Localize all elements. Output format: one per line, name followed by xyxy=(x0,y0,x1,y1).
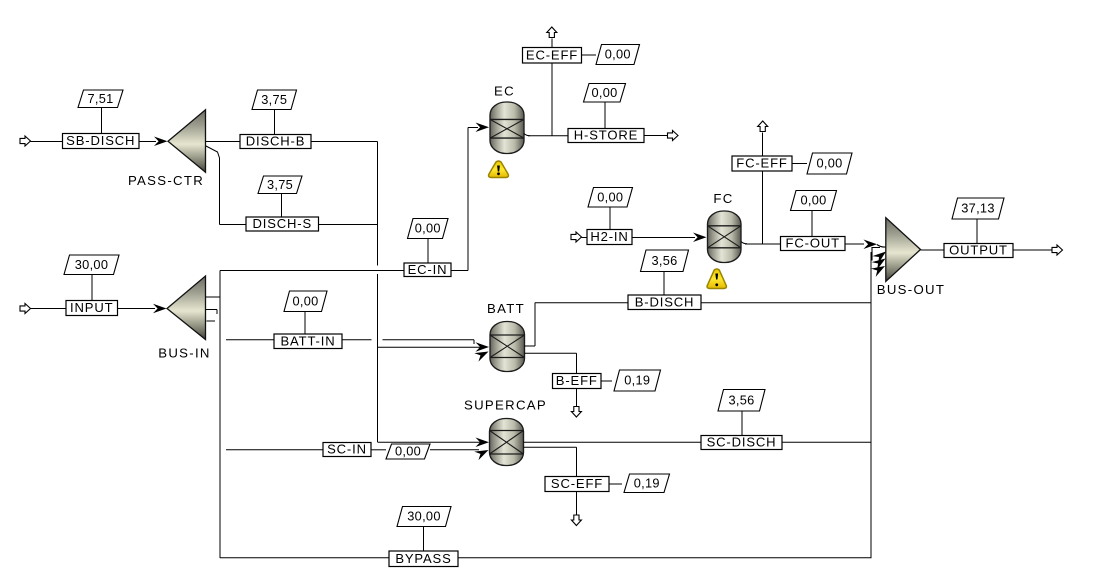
value 30,00 for INPUT xyxy=(64,255,119,275)
wire: SUPERCAP to SC-EFF xyxy=(524,446,577,448)
arrowhead SC-DISCH into BUS-OUT xyxy=(872,255,889,270)
svg-text:0,19: 0,19 xyxy=(624,373,650,388)
wire: EC outlet hook xyxy=(524,134,530,136)
arrowhead 2 into SUPERCAP xyxy=(474,446,490,460)
value 0,00 for SC-IN xyxy=(386,444,430,459)
svg-text:DISCH-S: DISCH-S xyxy=(252,216,312,231)
wire: SC-EFF drop upper xyxy=(576,447,578,476)
product open-arrow H-STORE xyxy=(668,131,679,141)
wire: FC outlet hook xyxy=(741,242,747,244)
warning icon EC xyxy=(489,161,509,178)
wire: FC-EFF riser upper xyxy=(762,133,764,157)
arrowhead BYPASS into BUS-OUT xyxy=(871,262,887,277)
arrowhead into BUS-IN xyxy=(153,304,167,314)
connector 3,75 to DISCH-B xyxy=(274,110,276,135)
connector SC-EFF to 0,19 xyxy=(609,483,622,485)
feed open-arrow H2-IN xyxy=(571,232,582,242)
svg-text:0,00: 0,00 xyxy=(816,156,842,171)
connector 0,00 to EC-IN xyxy=(427,239,429,264)
svg-text:FC-EFF: FC-EFF xyxy=(736,156,787,171)
stream label EC-EFF xyxy=(523,48,582,64)
splitter PASS-CTR xyxy=(168,110,206,173)
wire: BYPASS east xyxy=(458,557,872,559)
stream label OUTPUT xyxy=(944,244,1013,258)
svg-text:SB-DISCH: SB-DISCH xyxy=(66,133,135,148)
wire: DISCH-S into SUPERCAP xyxy=(378,441,482,443)
arrowhead FC-OUT into BUS-OUT xyxy=(864,240,878,250)
fuel cell FC xyxy=(708,211,742,263)
wire: B-DISCH west segment xyxy=(535,302,628,304)
wire: PASS-CTR to DISCH-B xyxy=(206,141,241,143)
stub hook outlet 2 xyxy=(216,310,218,315)
wire: INPUT to BUS-IN xyxy=(118,308,156,310)
svg-text:SC-IN: SC-IN xyxy=(327,442,367,457)
stub BUS-IN outlet 2 xyxy=(206,309,218,311)
stream label SB-DISCH xyxy=(63,134,140,149)
wire: DISCH-S east to vertical xyxy=(319,224,379,226)
connector 7,51 to SB-DISCH xyxy=(101,108,103,134)
hook marks at BUS-OUT inlet xyxy=(872,245,886,261)
arrowhead into BATT xyxy=(476,342,490,352)
value 0,19 for B-EFF xyxy=(614,370,661,391)
stream label EC-IN xyxy=(404,263,451,277)
wire: SC-IN east xyxy=(430,449,479,451)
svg-text:H-STORE: H-STORE xyxy=(574,128,638,143)
stream label SC-IN xyxy=(323,443,371,457)
wire: DISCH-B/DISCH-S vertical bus x=377 lower xyxy=(377,274,379,442)
value 0,00 for H2-IN xyxy=(588,188,633,208)
connector B-EFF to 0,19 xyxy=(601,380,612,382)
wire: EC to H-STORE xyxy=(528,135,568,137)
value 3,75 for DISCH-S xyxy=(258,176,302,194)
svg-text:BYPASS: BYPASS xyxy=(395,551,451,566)
connector 0,00 to H2-IN xyxy=(609,207,611,230)
wire: SC-IN west xyxy=(226,449,323,451)
arrowhead B-DISCH into BUS-OUT xyxy=(872,248,888,264)
wire: BYPASS west xyxy=(220,557,389,559)
svg-text:EC-EFF: EC-EFF xyxy=(526,47,578,62)
svg-text:0,19: 0,19 xyxy=(634,475,660,490)
value 3,56 for B-DISCH xyxy=(641,250,689,272)
svg-text:BATT: BATT xyxy=(487,301,525,316)
svg-text:0,00: 0,00 xyxy=(605,47,631,62)
arrowhead into FC xyxy=(693,233,707,243)
connector 37,13 to OUTPUT xyxy=(976,219,978,244)
product open-arrow EC-EFF xyxy=(547,27,557,38)
svg-text:PASS-CTR: PASS-CTR xyxy=(128,173,204,188)
connector EC-EFF to 0,00 xyxy=(582,54,597,56)
wire: FC to FC-OUT xyxy=(745,243,781,245)
electrolyzer EC xyxy=(490,102,524,154)
warning icon FC xyxy=(707,269,726,289)
wire: SB-DISCH to PASS-CTR xyxy=(139,141,156,143)
feed open-arrow INPUT xyxy=(20,304,31,314)
stream label DISCH-B xyxy=(240,135,311,149)
wire: BATT to B-EFF xyxy=(525,352,577,354)
wire: SC-DISCH east to BUS-OUT bus xyxy=(782,441,871,443)
wire: EC-IN west segment xyxy=(220,270,404,272)
battery BATT xyxy=(490,322,525,372)
svg-text:SUPERCAP: SUPERCAP xyxy=(464,397,547,412)
connector 0,00 to FC-OUT xyxy=(811,211,813,237)
value 0,19 for SC-EFF xyxy=(624,474,670,493)
wire: feed to SB-DISCH box xyxy=(31,141,63,143)
stream label FC-EFF xyxy=(732,156,792,171)
svg-text:FC: FC xyxy=(713,191,733,206)
wire: into DISCH-S box xyxy=(220,224,247,226)
connector 30,00 to BYPASS xyxy=(423,527,425,552)
value 0,00 for H-STORE xyxy=(584,84,626,103)
stream label BYPASS xyxy=(389,551,458,567)
svg-text:37,13: 37,13 xyxy=(961,201,995,216)
svg-text:H2-IN: H2-IN xyxy=(590,229,628,244)
connector 3,56 to SC-DISCH xyxy=(741,411,743,436)
wire: vertical bus to BUS-OUT x=871 xyxy=(870,252,872,558)
connector 3,56 to B-DISCH xyxy=(663,272,665,296)
wire: BUS-IN vertical bus x=220 xyxy=(219,271,221,559)
svg-text:B-EFF: B-EFF xyxy=(556,373,598,388)
wire: B-EFF drop upper xyxy=(576,353,578,373)
value 37,13 for OUTPUT xyxy=(952,198,1004,219)
svg-text:0,00: 0,00 xyxy=(415,221,441,236)
stream label BATT-IN xyxy=(274,334,342,349)
arrowhead into EC xyxy=(476,123,490,133)
wire: into EC xyxy=(468,127,478,129)
svg-text:30,00: 30,00 xyxy=(75,257,109,272)
value 0,00 for EC-IN xyxy=(408,219,449,239)
stream label SC-DISCH xyxy=(701,436,782,450)
wire: EC-EFF riser upper xyxy=(551,39,553,48)
value 3,56 for SC-DISCH xyxy=(718,390,765,412)
svg-text:0,00: 0,00 xyxy=(591,85,617,100)
stream label B-EFF xyxy=(553,374,602,389)
stream label INPUT xyxy=(66,301,118,316)
connector 0,00 to BATT-IN xyxy=(304,312,306,335)
wire: B-DISCH rise xyxy=(534,303,536,347)
wire: feed to H2-IN box xyxy=(582,237,588,239)
stub BATT outlet B-DISCH xyxy=(525,345,536,347)
svg-text:FC-OUT: FC-OUT xyxy=(786,236,840,251)
svg-text:BUS-IN: BUS-IN xyxy=(158,345,211,360)
svg-text:DISCH-B: DISCH-B xyxy=(246,134,306,149)
product open-arrow SC-EFF xyxy=(571,515,581,526)
wire: H2-IN to FC xyxy=(632,237,695,239)
value 3,75 for DISCH-B xyxy=(252,90,297,110)
value 30,00 for BYPASS xyxy=(397,507,451,527)
wire: BUS-OUT to OUTPUT xyxy=(921,249,945,251)
wire: BATT-IN east a xyxy=(342,339,372,341)
svg-text:3,56: 3,56 xyxy=(651,253,677,268)
svg-text:INPUT: INPUT xyxy=(70,300,113,315)
svg-text:SC-EFF: SC-EFF xyxy=(551,476,603,491)
hook BATT-IN end xyxy=(473,340,475,344)
svg-text:BUS-OUT: BUS-OUT xyxy=(877,282,945,297)
stream label SC-EFF xyxy=(545,477,609,492)
connector 30,00 to INPUT xyxy=(91,275,93,301)
wire: SC-EFF drop lower xyxy=(576,492,578,516)
svg-text:3,56: 3,56 xyxy=(728,392,754,407)
stream label B-DISCH xyxy=(628,295,701,310)
wire: DISCH-B east xyxy=(311,141,378,143)
stream label H2-IN xyxy=(587,230,632,245)
wire: B-DISCH east to BUS-OUT bus xyxy=(701,302,871,304)
svg-text:OUTPUT: OUTPUT xyxy=(949,243,1008,258)
svg-text:0,00: 0,00 xyxy=(800,193,826,208)
svg-text:3,75: 3,75 xyxy=(267,177,293,192)
wire: feed to INPUT box xyxy=(31,308,67,310)
product open-arrow FC-EFF xyxy=(758,121,768,132)
svg-text:EC: EC xyxy=(494,83,515,98)
wire: PASS-CTR lower outlet to DISCH-S xyxy=(206,146,220,225)
wire: BATT-IN west xyxy=(226,339,274,341)
svg-text:0,00: 0,00 xyxy=(292,293,318,308)
wire: FC-OUT to BUS-OUT xyxy=(845,243,864,245)
feed open-arrow SB-DISCH xyxy=(20,136,31,146)
svg-text:7,51: 7,51 xyxy=(87,91,113,106)
svg-text:30,00: 30,00 xyxy=(407,509,441,524)
stream label DISCH-S xyxy=(246,217,319,231)
value 0,00 for EC-EFF xyxy=(596,45,640,65)
wire: BATT-IN east b xyxy=(383,339,475,341)
wire: DISCH-B/DISCH-S vertical bus x=377 upper xyxy=(377,142,379,266)
connector 3,75 to DISCH-S xyxy=(281,194,283,218)
wire: FC-EFF riser lower xyxy=(762,171,764,244)
arrowhead into SUPERCAP xyxy=(476,438,490,448)
wire: DISCH-B into BATT xyxy=(378,346,482,348)
wire: SC-IN to value tag xyxy=(371,449,386,451)
value 0,00 for FC-EFF xyxy=(807,153,852,174)
stream label H-STORE xyxy=(568,129,644,143)
wire: SC-DISCH west segment xyxy=(524,441,702,443)
wire: OUTPUT to product arrow xyxy=(1013,249,1052,251)
stream label FC-OUT xyxy=(781,237,846,251)
connector FC-EFF to 0,00 xyxy=(792,163,807,165)
wire: EC-IN rise to EC xyxy=(467,128,469,271)
value 0,00 for FC-OUT xyxy=(791,191,837,211)
stub BUS-IN outlet 1 xyxy=(206,296,221,298)
svg-text:BATT-IN: BATT-IN xyxy=(281,333,336,348)
mixer BUS-OUT xyxy=(886,218,921,282)
product open-arrow OUTPUT xyxy=(1052,245,1063,255)
product open-arrow B-EFF xyxy=(571,407,581,418)
svg-text:SC-DISCH: SC-DISCH xyxy=(707,435,777,450)
connector 0,00 to H-STORE xyxy=(604,102,606,129)
value 0,00 for BATT-IN xyxy=(284,291,327,312)
wire: B-EFF drop lower xyxy=(576,389,578,407)
value 7,51 for SB-DISCH xyxy=(78,90,123,108)
svg-text:0,00: 0,00 xyxy=(395,444,421,459)
wire: EC-IN east segment xyxy=(451,270,468,272)
wire: EC-EFF riser lower xyxy=(551,63,553,136)
splitter BUS-IN xyxy=(167,276,206,340)
wire: H-STORE to product arrow xyxy=(644,135,668,137)
svg-text:EC-IN: EC-IN xyxy=(408,262,448,277)
stub BUS-IN outlet 3 xyxy=(207,320,216,322)
arrowhead 2 into BATT xyxy=(474,347,490,361)
arrowhead into PASS-CTR xyxy=(154,137,168,147)
svg-text:3,75: 3,75 xyxy=(261,92,287,107)
svg-text:0,00: 0,00 xyxy=(597,189,623,204)
supercapacitor SUPERCAP xyxy=(490,419,524,466)
svg-text:B-DISCH: B-DISCH xyxy=(635,294,695,309)
